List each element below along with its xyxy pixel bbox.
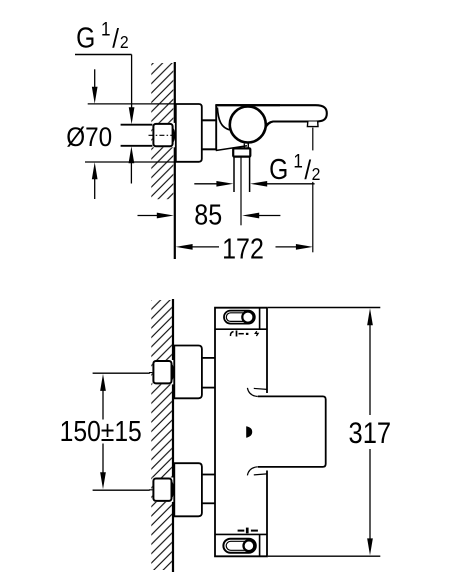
svg-text:1: 1 xyxy=(293,151,303,172)
spout block (plan view) xyxy=(258,396,326,467)
dimension 150±15 lower arrow xyxy=(102,444,104,475)
upper escutcheon (plan view) xyxy=(174,346,202,399)
svg-text:150±15: 150±15 xyxy=(60,415,142,447)
G1/2 label leader line xyxy=(75,54,132,56)
Ø70 lower arrow xyxy=(92,162,98,179)
dimension 317 extension lines xyxy=(268,307,380,309)
top cap icon row xyxy=(230,331,258,337)
outlet pipe xyxy=(233,157,235,192)
G1/2 outlet dimension line right xyxy=(250,181,267,187)
lower union nut in wall xyxy=(152,478,173,502)
fillet knob to spout bottom (right) xyxy=(263,122,274,134)
wall surface line (top view) xyxy=(174,62,176,259)
escutcheon (top view) xyxy=(176,104,202,162)
wall surface line (plan view) xyxy=(172,299,174,572)
G1/2 lower arrow xyxy=(129,146,135,163)
dimension 317 upper arrow xyxy=(367,308,373,325)
bottom cap pill knob circle xyxy=(244,540,255,551)
lower union centerline extension xyxy=(93,489,149,491)
temperature indicator mark xyxy=(246,426,252,438)
outlet nut xyxy=(233,148,250,156)
spout top shoulder fillet xyxy=(254,388,267,389)
top cap divider xyxy=(215,328,267,330)
dimension G1/2 (outlet) label xyxy=(269,151,320,186)
svg-text:172: 172 xyxy=(222,233,264,265)
dimension 85 line left xyxy=(138,215,160,217)
wall hatching (top view) xyxy=(151,63,173,199)
union nut in wall (top view) xyxy=(152,123,175,147)
upper connection pipe xyxy=(202,357,215,359)
dimension 150±15 upper arrow xyxy=(100,374,106,391)
svg-text:1: 1 xyxy=(101,19,111,40)
top cap inner vertical xyxy=(259,308,261,330)
svg-text:Ø70: Ø70 xyxy=(66,123,112,152)
union thread extension lines (left of wall nut) xyxy=(121,124,154,126)
dimension 172 line left xyxy=(176,244,193,250)
bottom cap inner vertical xyxy=(259,534,261,556)
bottom cap pill slot xyxy=(223,539,255,553)
svg-text:G: G xyxy=(76,22,95,54)
body wedge bottom slant xyxy=(216,146,247,151)
svg-text:2: 2 xyxy=(312,164,321,184)
extension line escutcheon top xyxy=(88,103,176,105)
union nut centerline xyxy=(149,134,175,136)
thermostat knob circle xyxy=(230,107,266,143)
G1/2 outlet dimension line left xyxy=(194,183,217,185)
connection pipe escutcheon to body xyxy=(202,119,216,121)
top cap pill slot xyxy=(224,311,255,324)
spout bottom shoulder fillet xyxy=(254,474,267,475)
body outline (plan view) xyxy=(215,308,267,557)
outlet centerline xyxy=(240,157,242,225)
fillet body to knob (left) xyxy=(217,108,229,130)
lower escutcheon (plan view) xyxy=(174,463,202,516)
spout (top view) xyxy=(216,105,327,133)
svg-text:85: 85 xyxy=(194,199,222,231)
upper union nut in wall xyxy=(152,360,173,384)
dimension 317 lower arrow xyxy=(369,449,371,541)
dimension 150±15 extension lines xyxy=(93,372,150,374)
extension line escutcheon bottom xyxy=(85,161,176,163)
svg-text:/: / xyxy=(112,24,120,53)
svg-text:317: 317 xyxy=(348,416,391,449)
bottom cap divider xyxy=(215,533,267,535)
lower connection pipe xyxy=(202,474,215,476)
dimension 85 line right xyxy=(242,213,259,219)
bottom cap icon row xyxy=(238,528,258,534)
Ø70 upper arrow xyxy=(94,69,96,89)
dimension G1/2 (wall union) label xyxy=(76,19,129,54)
body top edge over knob xyxy=(215,104,280,106)
svg-text:G: G xyxy=(269,153,288,185)
body wedge (top view) xyxy=(215,105,217,151)
upper union centerline extension xyxy=(93,372,149,374)
svg-text:2: 2 xyxy=(120,32,129,52)
spout outlet extension line xyxy=(312,128,314,151)
wall hatching (plan view) xyxy=(151,300,172,570)
outlet neck below knob xyxy=(247,142,249,148)
spout outlet nub xyxy=(307,122,318,127)
top cap pill knob circle xyxy=(242,312,253,323)
dimension 172 line right xyxy=(276,246,299,248)
G1/2 upper arrow xyxy=(131,55,133,111)
